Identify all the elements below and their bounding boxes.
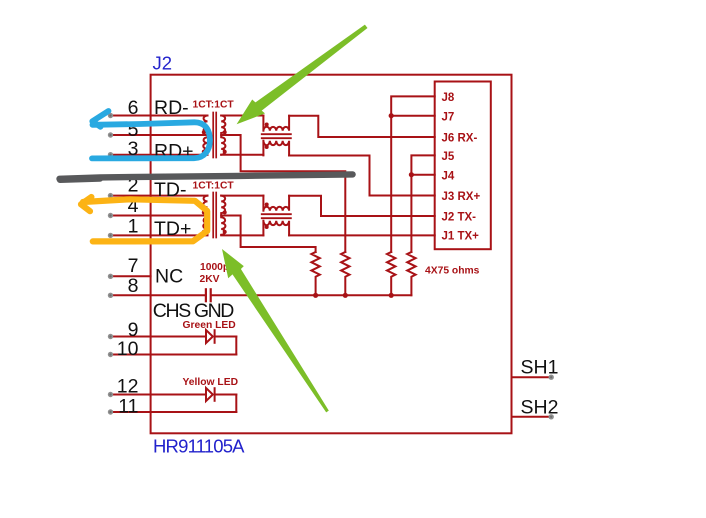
label J6 RX-	[442, 133, 478, 145]
svg-text:CHS GND: CHS GND	[153, 300, 235, 322]
pin number 9	[128, 319, 139, 341]
choke L1 top winding	[263, 116, 289, 131]
label 1CT:1CT TX	[193, 181, 235, 192]
annotation orange arrow	[81, 197, 207, 241]
pin 9 stub	[111, 336, 207, 338]
label J3 RX+	[442, 191, 481, 203]
label CHS GND	[153, 300, 235, 322]
connector outline J2	[151, 75, 512, 434]
svg-text:J6 RX-: J6 RX-	[442, 133, 478, 145]
resistor R3	[387, 252, 395, 295]
svg-text:4X75 ohms: 4X75 ohms	[425, 266, 480, 277]
wire J4 pin	[411, 174, 434, 176]
label HR911105A	[153, 436, 245, 457]
pin number 12	[117, 376, 139, 398]
RJ45 jack box	[435, 82, 491, 250]
svg-text:12: 12	[117, 376, 139, 398]
svg-text:HR911105A: HR911105A	[153, 436, 245, 457]
choke L1 core	[262, 134, 291, 138]
pin 2 stub TD-	[111, 195, 208, 197]
choke L2 polarity dots	[265, 203, 269, 230]
choke L2 bottom winding	[263, 221, 289, 236]
svg-text:TD+: TD+	[154, 218, 191, 240]
svg-text:10: 10	[117, 338, 139, 360]
pin number 4	[128, 195, 139, 217]
label RD+	[154, 141, 194, 163]
svg-text:1: 1	[128, 216, 139, 238]
wire T2 secondary center tap	[221, 216, 315, 253]
pin number 3	[128, 138, 139, 160]
label J4	[442, 170, 455, 182]
label TD-	[154, 179, 187, 201]
label 1000p	[200, 262, 229, 273]
svg-text:Yellow LED: Yellow LED	[183, 377, 239, 388]
svg-text:1CT:1CT: 1CT:1CT	[193, 100, 235, 111]
transformer T2 polarity dots	[202, 210, 227, 234]
label SH1	[521, 357, 559, 379]
svg-text:NC: NC	[155, 266, 183, 288]
label SH2	[521, 396, 559, 418]
capacitor C1 1000p 2KV	[206, 289, 211, 301]
resistor R1	[311, 252, 319, 295]
pin 5 stub	[111, 134, 208, 136]
label 2KV	[200, 274, 220, 285]
label J1 TX+	[442, 230, 480, 242]
pin number 2	[128, 175, 139, 197]
label TD+	[154, 218, 191, 240]
pin 12 stub	[111, 394, 207, 396]
junction J7	[389, 113, 394, 118]
wire J7 pin	[391, 115, 435, 117]
pin number 6	[128, 97, 139, 119]
pin number 11	[118, 396, 138, 418]
wire J8 pin	[391, 96, 435, 252]
transformer T1 RX left winding	[203, 116, 207, 155]
label RD-	[154, 97, 189, 119]
LED D2 yellow	[206, 388, 236, 401]
svg-text:SH2: SH2	[521, 396, 559, 418]
svg-text:J7: J7	[442, 111, 455, 123]
pin 4 stub	[111, 215, 208, 217]
wire ground bus	[212, 294, 412, 296]
svg-text:SH1: SH1	[521, 357, 559, 379]
annotation blue arrow	[92, 111, 210, 158]
pin SH1 stub	[512, 376, 552, 378]
svg-text:1CT:1CT: 1CT:1CT	[193, 181, 235, 192]
label 1CT:1CT RX	[193, 100, 235, 111]
pin 10 stub	[111, 354, 237, 356]
pin 11 stub	[111, 411, 237, 413]
LED D1 green	[206, 330, 236, 343]
pin number 5	[128, 119, 139, 141]
wire choke L1 bottom to J3 RX+	[289, 156, 435, 196]
svg-text:J2 TX-: J2 TX-	[442, 212, 477, 224]
wire T1 secondary center tap	[221, 135, 345, 252]
pin 1 stub TD+	[111, 234, 208, 236]
transformer T1 RX core	[213, 113, 216, 158]
wire choke L1 top to J6 RX-	[289, 116, 435, 137]
label J7	[442, 111, 455, 123]
svg-text:J3 RX+: J3 RX+	[442, 191, 481, 203]
pin 6 stub RD-	[111, 115, 208, 117]
transformer T2 TX core	[213, 193, 216, 238]
svg-text:2KV: 2KV	[200, 274, 220, 285]
transformer T2 TX right winding	[221, 196, 225, 235]
annotation green arrow 1	[237, 25, 368, 125]
pin 3 stub RD+	[111, 154, 208, 156]
svg-text:RD-: RD-	[154, 97, 189, 119]
junction R3 bus	[389, 293, 394, 298]
pin number 8	[128, 275, 139, 297]
label J5	[442, 151, 455, 163]
pin number 10	[117, 338, 139, 360]
pin 7 stub NC	[111, 275, 151, 277]
wire choke L2 bottom to J1 TX+	[289, 234, 435, 236]
label J2	[153, 53, 173, 74]
svg-text:6: 6	[128, 97, 139, 119]
svg-text:7: 7	[128, 255, 139, 277]
svg-text:J2: J2	[153, 53, 173, 74]
pin end dots	[108, 113, 554, 420]
annotation gray line	[60, 174, 353, 179]
svg-text:Green LED: Green LED	[183, 320, 236, 331]
svg-text:J1 TX+: J1 TX+	[442, 230, 480, 242]
svg-text:J8: J8	[442, 92, 455, 104]
svg-text:J5: J5	[442, 151, 455, 163]
pin number 1	[128, 216, 139, 238]
choke L1 bottom winding	[263, 141, 289, 156]
junction R1 bus	[313, 293, 318, 298]
wire T2 secondary bottom to choke L2	[221, 234, 263, 236]
svg-text:1000p: 1000p	[200, 262, 229, 273]
wire T1 secondary top to choke L1	[221, 115, 263, 117]
label J2 TX-	[442, 212, 477, 224]
pin 8 stub CHS GND	[111, 294, 205, 296]
annotation green arrow 2	[222, 249, 329, 412]
wire choke L2 top to J2 TX-	[289, 196, 435, 216]
wire T1 secondary bottom to choke L1	[221, 154, 263, 156]
wire LED D2 loop	[235, 395, 237, 413]
svg-text:11: 11	[118, 396, 138, 418]
junction J4	[409, 172, 414, 177]
resistor R4	[407, 252, 415, 295]
label 4X75 ohms	[425, 266, 480, 277]
label J8	[442, 92, 455, 104]
label NC	[155, 266, 183, 288]
pin SH2 stub	[512, 416, 552, 418]
wire LED D1 loop	[235, 337, 237, 355]
transformer T2 TX left winding	[203, 196, 207, 235]
svg-text:J4: J4	[442, 170, 455, 182]
svg-text:8: 8	[128, 275, 139, 297]
wire J5 pin	[411, 155, 434, 252]
transformer T1 polarity dots	[202, 130, 227, 154]
choke L2 core	[262, 214, 291, 218]
resistor R2	[341, 252, 349, 295]
junction R2 bus	[343, 293, 348, 298]
choke L1 polarity dots	[265, 123, 269, 150]
wire T2 secondary top to choke L2	[221, 195, 263, 197]
pin number 7	[128, 255, 139, 277]
choke L2 top winding	[263, 196, 289, 211]
transformer T1 RX right winding	[221, 116, 225, 155]
label Green LED	[183, 320, 236, 331]
label Yellow LED	[183, 377, 239, 388]
